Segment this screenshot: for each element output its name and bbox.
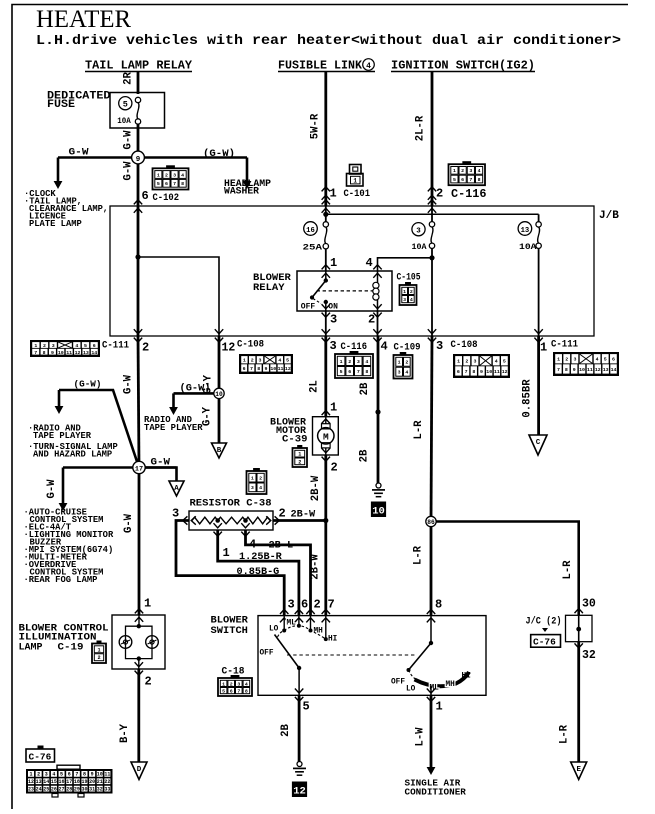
svg-text:2: 2: [145, 675, 152, 689]
svg-text:C-111: C-111: [102, 340, 129, 352]
svg-text:6: 6: [230, 688, 233, 694]
svg-text:SWITCH: SWITCH: [211, 625, 248, 637]
svg-text:12: 12: [595, 367, 601, 373]
wire 2L-R ignition switch: [431, 72, 434, 207]
connector C-105 icon: [405, 282, 410, 285]
wire 2B-L resistor pin4 to switch pin 2: [246, 530, 311, 616]
svg-text:4: 4: [478, 168, 481, 174]
svg-text:M: M: [323, 432, 329, 443]
svg-text:1: 1: [398, 360, 401, 366]
wire 0.85BR C-111 to pointer C: [537, 336, 540, 435]
svg-text:17: 17: [66, 779, 72, 785]
svg-text:7: 7: [173, 181, 176, 187]
svg-text:5: 5: [303, 700, 310, 714]
node 86 junction: [426, 516, 436, 526]
svg-text:12: 12: [75, 350, 81, 356]
svg-text:C-111: C-111: [551, 339, 578, 351]
fuse 16 25A: [325, 206, 327, 222]
connector C-116 bottom icon: [350, 351, 358, 354]
svg-text:10: 10: [579, 367, 585, 373]
svg-text:10: 10: [215, 391, 223, 398]
svg-text:30: 30: [582, 598, 596, 611]
svg-text:LO: LO: [269, 626, 279, 634]
blower motor crossing bottom: [322, 457, 330, 462]
svg-text:9: 9: [265, 366, 268, 372]
svg-text:3: 3: [45, 772, 48, 778]
relay crossing pin 1: [322, 265, 330, 270]
svg-text:B: B: [217, 447, 222, 455]
svg-text:G-W: G-W: [123, 513, 135, 533]
wire to relay pin 4: [378, 258, 433, 271]
wire L-W switch pin 1 to single air conditioner: [430, 695, 433, 768]
svg-text:16: 16: [306, 227, 315, 235]
svg-text:A: A: [174, 485, 179, 493]
svg-text:C-101: C-101: [344, 188, 371, 200]
svg-text:ON: ON: [328, 303, 338, 312]
svg-text:3: 3: [288, 598, 295, 612]
svg-text:7: 7: [237, 688, 240, 694]
svg-text:7: 7: [357, 369, 360, 375]
svg-text:3: 3: [330, 339, 337, 353]
connector C-101 icon: [350, 165, 362, 175]
svg-text:1: 1: [34, 343, 37, 349]
connector C-76 boxed label at J/C: [531, 635, 561, 648]
svg-text:G-W: G-W: [123, 161, 135, 181]
svg-text:G-W: G-W: [69, 147, 90, 159]
switch left contacts: [283, 616, 285, 631]
arrow out of J/C bottom: [575, 643, 583, 648]
wire relay pin 3 to C-116: [325, 311, 327, 336]
node 17 junction: [133, 461, 145, 473]
svg-text:4: 4: [410, 297, 413, 303]
svg-text:FUSIBLE LINK: FUSIBLE LINK: [278, 60, 362, 73]
svg-text:1: 1: [436, 700, 443, 714]
svg-text:E: E: [576, 766, 581, 774]
svg-text:J/C (2): J/C (2): [526, 616, 562, 628]
svg-text:12: 12: [285, 366, 291, 372]
crossing at J/B bottom: [215, 338, 223, 343]
svg-text:7: 7: [465, 369, 468, 375]
pointer B: [212, 443, 227, 458]
svg-text:2: 2: [314, 598, 321, 612]
wire fuse 13 down to C-111: [538, 249, 540, 337]
branch left of node 17 to systems list: [62, 468, 65, 505]
connector C-109 icon: [400, 352, 406, 355]
svg-text:1: 1: [330, 401, 337, 415]
svg-text:8: 8: [181, 181, 184, 187]
svg-text:30: 30: [81, 786, 87, 792]
svg-text:C-105: C-105: [397, 272, 421, 284]
svg-text:10: 10: [58, 350, 64, 356]
svg-text:FUSE: FUSE: [47, 99, 75, 111]
svg-text:3: 3: [172, 507, 179, 521]
svg-text:8: 8: [257, 366, 260, 372]
svg-text:2B: 2B: [359, 449, 371, 462]
svg-text:3: 3: [469, 168, 472, 174]
svg-text:2: 2: [259, 476, 262, 482]
crossing at J/B bottom: [428, 338, 436, 343]
blower motor crossing top: [322, 411, 330, 416]
svg-text:4: 4: [181, 172, 184, 178]
svg-text:2: 2: [410, 289, 413, 295]
lamp bulb left: [119, 636, 132, 649]
switch right output wire: [430, 686, 432, 695]
svg-text:1: 1: [353, 178, 357, 185]
svg-text:12: 12: [222, 342, 236, 355]
svg-text:3: 3: [573, 357, 576, 363]
svg-text:10: 10: [270, 366, 276, 372]
svg-text:9: 9: [51, 350, 54, 356]
branch L-R node 86 to J/C: [431, 522, 579, 616]
svg-text:13: 13: [521, 227, 530, 235]
svg-text:1: 1: [557, 357, 560, 363]
blower control illumination lamp box: [112, 615, 165, 669]
resistor crossing left: [183, 516, 188, 524]
svg-text:19: 19: [81, 779, 87, 785]
svg-text:4: 4: [596, 357, 599, 363]
crossing G-W into J/B: [134, 200, 142, 205]
svg-text:G-W: G-W: [151, 457, 171, 469]
crossing pin 8: [427, 609, 435, 614]
svg-text:7: 7: [328, 598, 335, 612]
pointer E: [571, 762, 587, 780]
svg-text:12: 12: [28, 779, 34, 785]
svg-text:13: 13: [36, 779, 42, 785]
svg-text:6: 6: [165, 181, 168, 187]
svg-text:PLATE LAMP: PLATE LAMP: [29, 219, 82, 229]
svg-text:J/B: J/B: [599, 210, 619, 222]
svg-text:3: 3: [330, 313, 337, 327]
svg-text:HI: HI: [462, 673, 472, 681]
svg-text:1: 1: [157, 172, 160, 178]
svg-text:1: 1: [457, 359, 460, 365]
fuse 13 10A: [538, 214, 540, 221]
svg-text:8: 8: [565, 367, 568, 373]
blower motor box: [313, 417, 339, 455]
svg-text:2: 2: [565, 357, 568, 363]
svg-text:CONDITIONER: CONDITIONER: [405, 787, 467, 798]
relay dashed link: [317, 290, 374, 292]
svg-text:LAMP: LAMP: [19, 643, 43, 654]
svg-text:2: 2: [37, 772, 40, 778]
wire G-W node 9 to J/B: [137, 158, 140, 207]
svg-text:16: 16: [59, 779, 65, 785]
svg-text:25: 25: [43, 786, 49, 792]
svg-text:6: 6: [243, 366, 246, 372]
svg-text:0.85B-G: 0.85B-G: [237, 567, 280, 578]
svg-text:MH: MH: [446, 681, 456, 689]
pointer C: [529, 435, 547, 455]
svg-text:2: 2: [165, 172, 168, 178]
svg-text:2: 2: [279, 507, 286, 521]
svg-text:G-W: G-W: [123, 374, 135, 394]
wire G-W inside J/B: [137, 206, 140, 336]
svg-text:7: 7: [75, 772, 78, 778]
ground 12: [297, 762, 302, 767]
svg-text:21: 21: [97, 779, 103, 785]
svg-text:4: 4: [381, 340, 388, 354]
crossing 5W-R into J/B: [322, 200, 330, 205]
svg-text:20: 20: [89, 779, 95, 785]
bus wire inside J/B: [326, 213, 539, 215]
svg-text:D: D: [137, 766, 142, 774]
svg-text:IGNITION SWITCH(IG2): IGNITION SWITCH(IG2): [391, 60, 535, 73]
svg-text:RESISTOR C-38: RESISTOR C-38: [190, 498, 272, 510]
svg-text:C-76: C-76: [533, 637, 556, 648]
svg-text:29: 29: [74, 786, 80, 792]
node 17 junction wires: [63, 466, 177, 469]
svg-text:1: 1: [222, 681, 225, 687]
arrow to radio tape player turn signal: [58, 390, 61, 407]
svg-text:WASHER: WASHER: [224, 185, 259, 196]
connector C-111 right icon: [553, 352, 619, 376]
svg-text:5: 5: [604, 357, 607, 363]
switch pin crossings top: [280, 609, 288, 614]
wire G-W below dedicated fuse: [137, 124, 140, 157]
svg-text:4: 4: [75, 343, 78, 349]
connector C-38 icon: [254, 468, 260, 471]
svg-text:C-108: C-108: [451, 339, 478, 351]
svg-text:1: 1: [144, 597, 151, 611]
thick selector arc right: [415, 672, 470, 686]
switch left blade: [275, 635, 300, 669]
svg-text:10: 10: [486, 369, 492, 375]
svg-text:13: 13: [83, 350, 89, 356]
resistor pin 4 crossing: [241, 532, 249, 537]
svg-text:OFF: OFF: [391, 679, 405, 687]
svg-text:14: 14: [611, 367, 617, 373]
svg-text:2: 2: [465, 359, 468, 365]
fuse 5 10A element: [135, 97, 140, 102]
svg-text:2: 2: [298, 459, 301, 465]
resistor pin 1 crossing: [214, 532, 222, 537]
svg-text:4: 4: [52, 772, 55, 778]
wire L-R J/C to pointer E: [577, 642, 580, 762]
resistor elements: [192, 517, 218, 524]
svg-text:(G-W): (G-W): [74, 379, 102, 390]
svg-text:C: C: [536, 439, 541, 447]
svg-text:3: 3: [259, 358, 262, 364]
svg-text:·REAR FOG LAMP: ·REAR FOG LAMP: [24, 575, 98, 585]
wire B-Y lamp to pointer D: [137, 669, 140, 762]
svg-text:1: 1: [243, 358, 246, 364]
crossing pin 5: [295, 697, 303, 702]
svg-text:1: 1: [251, 476, 254, 482]
wire 2B C-109 to ground 10: [377, 336, 380, 483]
svg-text:OFF: OFF: [301, 303, 316, 312]
svg-text:5: 5: [84, 343, 87, 349]
wire 2B switch pin 5 to ground 12: [298, 695, 301, 762]
connector C-111 left icon: [30, 340, 100, 357]
svg-text:4: 4: [278, 358, 281, 364]
svg-text:28: 28: [66, 786, 72, 792]
svg-text:1: 1: [340, 359, 343, 365]
wire 2B-W resistor pin 2 to motor wire: [273, 519, 326, 522]
svg-text:2B: 2B: [359, 382, 371, 395]
crossing at J/B bottom: [534, 338, 542, 343]
wire 5W-R fusible link: [324, 72, 327, 207]
svg-text:3: 3: [251, 485, 254, 491]
svg-text:18: 18: [74, 779, 80, 785]
connector C-76 boxed label: [38, 746, 44, 750]
svg-text:10A: 10A: [519, 242, 538, 252]
svg-text:4: 4: [366, 256, 373, 270]
lamp crossing bottom: [135, 671, 143, 676]
dashed selector arc left: [278, 631, 285, 638]
relay crossing pin 3: [322, 313, 330, 318]
svg-text:L-R: L-R: [562, 560, 574, 580]
wire fuse 3 down to C-108: [431, 249, 433, 337]
svg-text:3: 3: [237, 681, 240, 687]
svg-text:4: 4: [495, 359, 498, 365]
svg-text:86: 86: [427, 519, 435, 526]
svg-text:5: 5: [60, 772, 63, 778]
wire L-R C-108 to node 86: [431, 336, 432, 522]
wire 2L C-116 to blower motor: [324, 336, 327, 417]
svg-text:C-19: C-19: [58, 643, 84, 654]
svg-text:3: 3: [436, 339, 443, 353]
svg-text:11: 11: [278, 366, 284, 372]
branch (G-W) to radio and tape player: [59, 390, 139, 468]
svg-text:3: 3: [403, 297, 406, 303]
svg-text:14: 14: [91, 350, 97, 356]
svg-text:2: 2: [461, 168, 464, 174]
svg-text:3: 3: [52, 343, 55, 349]
svg-text:4: 4: [245, 681, 248, 687]
svg-text:5: 5: [340, 369, 343, 375]
svg-text:2R: 2R: [123, 72, 135, 85]
crossing at J/B bottom: [134, 338, 142, 343]
wire G-W C-111 to node 17: [138, 336, 139, 468]
svg-text:3: 3: [357, 359, 360, 365]
svg-text:C-39: C-39: [282, 435, 308, 446]
svg-text:3: 3: [398, 370, 401, 376]
svg-text:24: 24: [36, 786, 42, 792]
relay ON contact: [324, 300, 328, 304]
svg-text:L-R: L-R: [413, 545, 425, 565]
svg-text:5W-R: 5W-R: [310, 113, 322, 139]
svg-text:AND HAZARD LAMP: AND HAZARD LAMP: [33, 450, 112, 460]
svg-text:4: 4: [366, 62, 371, 71]
svg-text:2: 2: [405, 360, 408, 366]
svg-text:2L: 2L: [309, 380, 321, 393]
svg-text:6: 6: [457, 369, 460, 375]
pointer A: [169, 481, 184, 496]
connector C-101 crossing: [322, 187, 330, 192]
svg-text:4: 4: [365, 359, 368, 365]
svg-text:6: 6: [68, 772, 71, 778]
arrow to clock and tail lamps: [57, 158, 60, 183]
svg-text:23: 23: [28, 786, 34, 792]
marker triangle above C-76 label: [542, 628, 548, 632]
svg-text:11: 11: [587, 367, 593, 373]
wire L-R node 86 to blower switch pin 8: [430, 522, 433, 616]
wire 2B-W motor to resistor junction: [324, 455, 327, 521]
svg-text:13: 13: [603, 367, 609, 373]
svg-text:B-Y: B-Y: [119, 723, 131, 743]
connector C-102 icon: [167, 166, 175, 169]
svg-text:(G-W): (G-W): [203, 148, 235, 160]
svg-text:10A: 10A: [412, 242, 428, 252]
svg-text:4: 4: [259, 485, 262, 491]
svg-text:0.85BR: 0.85BR: [522, 379, 534, 418]
svg-text:6: 6: [612, 357, 615, 363]
connector C-116 icon top: [463, 162, 471, 165]
svg-text:2: 2: [368, 313, 375, 327]
relay crossing pin 2: [373, 313, 381, 318]
svg-text:L-R: L-R: [559, 724, 571, 744]
switch right blade: [430, 616, 432, 643]
svg-text:5: 5: [222, 688, 225, 694]
svg-text:12: 12: [502, 369, 508, 375]
svg-text:22: 22: [104, 779, 110, 785]
svg-text:1: 1: [540, 341, 547, 355]
svg-text:2B-L: 2B-L: [269, 540, 294, 552]
svg-text:TAIL LAMP RELAY: TAIL LAMP RELAY: [85, 60, 192, 73]
svg-text:C-109: C-109: [394, 342, 421, 354]
dashed coupling line: [287, 654, 417, 656]
svg-text:HI: HI: [328, 636, 338, 644]
svg-text:1: 1: [453, 168, 456, 174]
svg-text:L.H.drive vehicles with rear h: L.H.drive vehicles with rear heater<with…: [36, 34, 621, 49]
svg-text:5: 5: [286, 358, 289, 364]
svg-text:11: 11: [494, 369, 500, 375]
junction relay pin 4 tap: [429, 255, 434, 260]
pointer D: [131, 762, 147, 780]
relay blade dashed tick: [313, 299, 321, 304]
svg-text:6: 6: [301, 598, 308, 612]
resistor crossing right: [275, 516, 280, 524]
svg-text:RELAY: RELAY: [253, 282, 285, 294]
svg-text:2B: 2B: [280, 724, 292, 737]
svg-text:9: 9: [136, 156, 141, 164]
svg-text:32: 32: [97, 786, 103, 792]
svg-text:17: 17: [135, 466, 143, 474]
svg-text:2: 2: [97, 655, 100, 661]
crossing pin 1: [427, 697, 435, 702]
svg-text:1: 1: [298, 452, 301, 458]
svg-text:8: 8: [245, 688, 248, 694]
svg-text:1.25B-R: 1.25B-R: [239, 552, 283, 563]
connector C-39 icon: [298, 445, 302, 448]
svg-text:15: 15: [51, 779, 57, 785]
crossing at J/B bottom: [373, 338, 381, 343]
svg-text:2: 2: [331, 461, 338, 475]
dashed tick right switch: [409, 670, 417, 680]
svg-text:8: 8: [435, 598, 442, 612]
relay coil: [377, 271, 379, 311]
svg-text:3: 3: [474, 359, 477, 365]
crossing 2L-R into J/B: [428, 200, 436, 205]
node 10 junction: [214, 388, 224, 398]
svg-text:OFF: OFF: [260, 650, 274, 658]
junction connector J/C(2) box: [578, 615, 580, 641]
lamp internal wiring: [138, 615, 140, 626]
lamp bulb right: [146, 636, 159, 649]
svg-text:9: 9: [480, 369, 483, 375]
wire G-Y C-108 pin 12 down: [218, 336, 221, 393]
svg-text:7: 7: [557, 367, 560, 373]
connector C-116 crossing: [428, 187, 436, 192]
svg-text:33: 33: [104, 786, 110, 792]
wire 0.85B-G resistor pin3 to switch pin 3: [176, 521, 284, 616]
svg-text:10A: 10A: [117, 116, 131, 126]
svg-text:G-Y: G-Y: [202, 406, 214, 426]
resistor box: [189, 511, 273, 530]
svg-text:5: 5: [123, 100, 128, 110]
svg-text:9: 9: [91, 772, 94, 778]
svg-text:2: 2: [43, 343, 46, 349]
